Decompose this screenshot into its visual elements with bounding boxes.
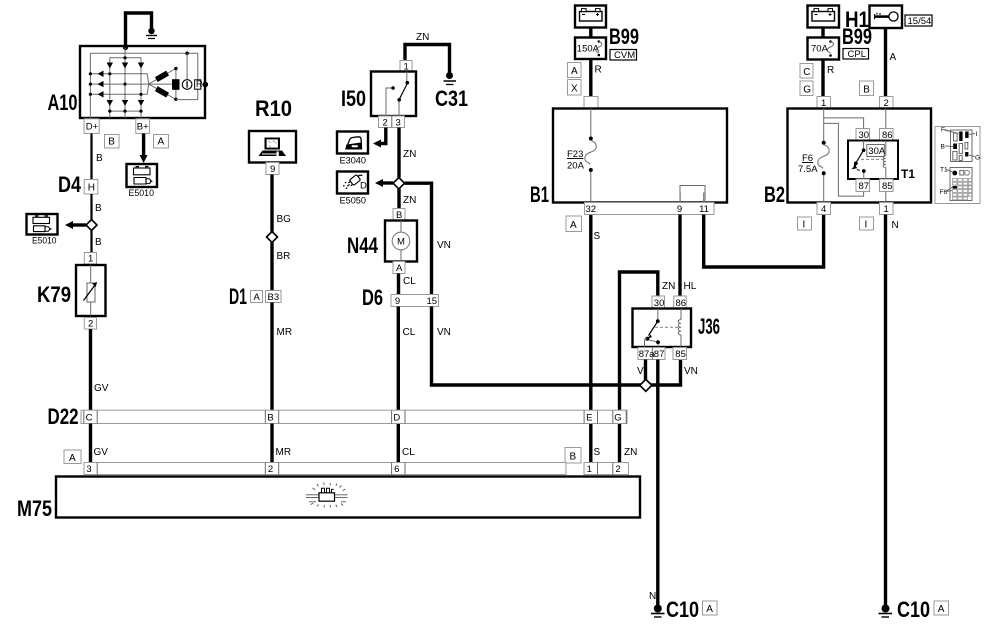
svg-text:B: B — [95, 203, 102, 214]
wire R10 down (BG) — [270, 175, 273, 232]
svg-text:I: I — [803, 219, 806, 230]
svg-text:B+: B+ — [137, 122, 149, 133]
ground (top, above A10) — [146, 28, 157, 39]
connector B label — [105, 135, 120, 149]
junction unit B2 — [788, 109, 932, 203]
svg-text:G: G — [803, 84, 811, 95]
svg-text:E5050: E5050 — [340, 196, 367, 207]
ignition key H1 — [870, 6, 903, 29]
svg-text:A: A — [254, 292, 261, 303]
connector A label — [154, 135, 169, 149]
pins 2 3 (I50) — [379, 116, 405, 129]
A10 bottom diodes — [107, 100, 145, 106]
svg-text:E5010: E5010 — [32, 236, 57, 247]
svg-text:H: H — [88, 183, 95, 194]
wire battery to fuse (right) — [821, 28, 824, 38]
label 15/54 — [905, 15, 932, 27]
node (diamond) on R10 wire — [267, 232, 278, 243]
svg-text:BG: BG — [277, 214, 292, 225]
legend connector top — [951, 130, 973, 162]
wire diamond to K79 — [90, 231, 92, 253]
svg-text:R: R — [595, 65, 602, 76]
switch I50 — [371, 72, 416, 117]
wire J36-87 to C10 (N) — [656, 360, 659, 607]
svg-text:A: A — [69, 453, 76, 464]
E5050 — [337, 172, 368, 207]
svg-text:A: A — [890, 52, 897, 63]
svg-text:VN: VN — [437, 240, 451, 251]
connector I label (below B2 pin1) — [860, 217, 874, 230]
A10 top diodes — [107, 63, 145, 69]
svg-text:A: A — [706, 604, 713, 615]
svg-text:N: N — [892, 220, 899, 231]
thermal switch K79 — [76, 265, 106, 316]
svg-text:2: 2 — [383, 118, 388, 129]
svg-text:J36: J36 — [698, 314, 720, 339]
connector G label (B2) — [800, 81, 813, 96]
svg-text:D+: D+ — [86, 122, 99, 133]
relay coil (T1) — [883, 156, 886, 168]
connector strip D22 — [81, 410, 627, 424]
wire fuse to B2 pin1 (R) — [821, 60, 824, 97]
ground C31 — [444, 72, 457, 85]
legend: fusebox layout — [935, 127, 980, 204]
svg-text:85: 85 — [675, 349, 686, 360]
connector C label (B2) — [800, 64, 813, 79]
svg-text:15: 15 — [427, 296, 438, 307]
svg-text:E: E — [586, 413, 592, 424]
wire B1-32 to D22-E (S) — [589, 215, 592, 463]
svg-text:1: 1 — [884, 204, 889, 215]
svg-text:20A: 20A — [567, 161, 585, 172]
svg-text:I: I — [976, 131, 978, 138]
svg-text:85: 85 — [882, 181, 893, 192]
svg-text:30A: 30A — [868, 146, 886, 157]
fuse 70A — [808, 38, 840, 60]
pin 87 (T1) — [856, 179, 870, 192]
svg-text:HL: HL — [684, 281, 697, 292]
svg-text:B: B — [96, 153, 103, 164]
svg-text:B2: B2 — [764, 182, 785, 207]
connector A label (C10 left) — [703, 601, 718, 615]
svg-text:R10: R10 — [255, 96, 292, 121]
svg-text:CVM: CVM — [614, 50, 635, 61]
svg-text:1: 1 — [88, 254, 93, 265]
svg-text:D22: D22 — [48, 404, 79, 429]
svg-text:15/54: 15/54 — [908, 16, 932, 27]
wire I50 pin3 down (ZN) — [397, 128, 400, 178]
label CVM — [610, 50, 637, 62]
svg-text:CL: CL — [403, 276, 416, 287]
connector D6 pins 9 15 — [391, 295, 439, 308]
svg-text:C: C — [86, 413, 93, 424]
svg-text:ZN: ZN — [416, 32, 429, 43]
fuse 150A — [575, 38, 606, 60]
svg-text:2: 2 — [615, 464, 620, 475]
wire diamond to D1 (BR) — [270, 243, 273, 291]
pin A (N44) — [393, 262, 405, 275]
pin strip M75-B (1,2) — [584, 463, 629, 475]
svg-text:87: 87 — [654, 349, 665, 360]
svg-text:9: 9 — [395, 296, 400, 307]
wire B+ to E5010 arrow — [140, 134, 148, 164]
svg-text:6: 6 — [394, 464, 399, 475]
wire I50 pin2 to E3040 arrow — [373, 128, 386, 148]
svg-text:A: A — [158, 137, 165, 148]
svg-text:C31: C31 — [435, 86, 468, 111]
svg-text:E5010: E5010 — [129, 188, 155, 199]
pin 1 (B2 bottom) — [880, 203, 894, 216]
wire D6-9 down (CL) — [397, 307, 400, 463]
label CPL — [843, 49, 869, 61]
svg-text:M: M — [397, 237, 405, 248]
svg-text:D: D — [393, 413, 400, 424]
svg-text:B99: B99 — [609, 24, 639, 49]
svg-text:G: G — [614, 413, 621, 424]
svg-text:B: B — [570, 452, 577, 463]
wire K79 to D22 (GV) — [89, 329, 92, 410]
pin B+ — [136, 119, 150, 134]
wire diamond right then down to D6-15 (VN) — [405, 183, 432, 294]
svg-text:V: V — [637, 366, 644, 377]
svg-text:G: G — [975, 155, 980, 162]
wire B1-11 to B2-4 — [704, 215, 824, 268]
svg-text:3: 3 — [86, 464, 91, 475]
svg-text:S: S — [594, 447, 601, 458]
pin 30 (J36) — [652, 296, 665, 309]
wire arrow to E5050 — [375, 179, 393, 187]
svg-text:MR: MR — [276, 447, 292, 458]
node (diamond) on VN run — [640, 379, 652, 391]
svg-text:VN: VN — [437, 327, 451, 338]
pin 85 (T1) — [880, 179, 894, 192]
svg-text:86: 86 — [882, 130, 893, 141]
pin 2 (B2 top) — [880, 97, 894, 110]
A10 left diodes — [98, 71, 104, 98]
wire D6-15 down then right to J36-85 (VN) — [432, 307, 681, 386]
pin 30 (T1) — [856, 129, 870, 142]
wire below D4 — [90, 194, 92, 220]
svg-text:A10: A10 — [48, 90, 78, 115]
svg-text:R: R — [827, 65, 834, 76]
control unit R10 — [249, 131, 296, 163]
connector A label (below B1) — [566, 216, 582, 232]
pin 1 (K79) — [84, 253, 96, 265]
pin 86 (T1) — [880, 129, 894, 142]
pin 9 (R10) — [266, 163, 279, 176]
wire key to B2 pin2 (A) — [884, 28, 887, 97]
wire diamond to N44 (ZN) — [397, 189, 400, 209]
legend connector bottom — [950, 168, 972, 201]
E5010 (below B+) — [127, 164, 158, 199]
svg-text:D1: D1 — [229, 284, 247, 309]
node (diamond) on D4-K79 wire — [86, 220, 97, 231]
wire D22-G up and right to J36-30 (ZN) — [620, 272, 658, 463]
svg-text:GV: GV — [94, 383, 109, 394]
svg-text:1: 1 — [587, 464, 592, 475]
cigar lighter M75 — [56, 477, 640, 518]
pin 1 (I50) — [400, 61, 412, 73]
M75 lamp icon — [306, 483, 348, 508]
svg-text:7.5A: 7.5A — [798, 164, 818, 175]
wire I50 pin1 to C31 (ZN) — [405, 45, 450, 73]
svg-text:X: X — [571, 84, 578, 95]
svg-text:A: A — [570, 220, 577, 231]
svg-text:ZN: ZN — [403, 195, 416, 206]
svg-text:A: A — [571, 66, 578, 77]
svg-text:2: 2 — [88, 319, 93, 330]
internal link 9-11 (B1) — [680, 186, 705, 203]
E5010 (left of K79) — [27, 214, 58, 247]
svg-text:ZN: ZN — [624, 447, 637, 458]
svg-text:MR: MR — [277, 327, 293, 338]
svg-text:F6: F6 — [802, 153, 813, 164]
pin 86 (J36) — [674, 296, 687, 309]
fuse F6 7.5A — [822, 141, 826, 145]
ground C10 (right) — [879, 605, 893, 618]
relay T1 — [848, 141, 898, 180]
wire B1-9 to J36-86 (HL) — [678, 215, 681, 297]
svg-text:E3040: E3040 — [340, 156, 367, 167]
regulator R box — [195, 80, 201, 89]
svg-text:K79: K79 — [37, 282, 71, 307]
connector A label (C10 right) — [934, 601, 949, 615]
svg-text:B99: B99 — [842, 24, 872, 49]
svg-text:F23: F23 — [567, 149, 583, 160]
svg-text:A: A — [938, 604, 945, 615]
ground C10 (left) — [651, 605, 665, 618]
wire J36-87a to node (V) — [644, 360, 647, 382]
node (diamond) on I50-N44 wire — [393, 178, 404, 189]
wire A10 ground wire — [126, 13, 152, 47]
pins 87a 87 (J36) — [638, 348, 665, 361]
connector A label (M75) — [64, 450, 81, 464]
wire D22-B to M75-2 (MR) — [270, 424, 273, 463]
svg-text:D: D — [360, 181, 367, 192]
svg-text:M75: M75 — [17, 496, 52, 521]
svg-text:A: A — [396, 263, 403, 274]
pump motor N44 — [385, 221, 417, 262]
pin 1 (B2 top) — [817, 97, 831, 110]
svg-text:F6: F6 — [940, 189, 948, 196]
svg-text:I50: I50 — [341, 86, 366, 111]
A10 internal: rails — [90, 48, 197, 119]
svg-text:GV: GV — [94, 447, 109, 458]
A10 junction dots — [89, 52, 189, 113]
svg-text:CPL: CPL — [848, 49, 866, 60]
svg-text:9: 9 — [677, 204, 682, 215]
wire fuse to B1 (R) — [589, 59, 592, 97]
svg-text:C10: C10 — [897, 597, 930, 622]
svg-text:30: 30 — [859, 130, 870, 141]
connector B label (M75) — [565, 448, 581, 464]
svg-text:I: I — [865, 219, 868, 230]
junction unit B1 — [553, 109, 727, 203]
A10 warning lamp I — [176, 53, 208, 99]
connector A label (B1) — [568, 63, 582, 78]
connector I label (below B2 pin4) — [798, 217, 812, 230]
svg-text:11: 11 — [699, 204, 709, 215]
wire B2-1 to C10 (N) — [884, 215, 887, 607]
pin D+ — [84, 119, 99, 134]
svg-text:N: N — [649, 591, 656, 602]
R10 computer icon — [259, 138, 287, 157]
pin stub (B1 top) — [584, 97, 598, 109]
contact rating 30A — [867, 145, 886, 158]
svg-text:CL: CL — [402, 447, 415, 458]
connector H (D4) — [84, 180, 98, 195]
svg-text:T1: T1 — [901, 167, 915, 181]
svg-text:B: B — [863, 84, 870, 95]
svg-text:2: 2 — [268, 464, 273, 475]
pin strip M75-A (3,2,6) — [84, 463, 566, 475]
svg-text:70A: 70A — [811, 44, 829, 55]
E3040 — [337, 132, 368, 167]
pin 4 (B2 bottom) — [817, 203, 831, 216]
wire battery to fuse — [589, 28, 592, 38]
svg-text:BR: BR — [277, 251, 291, 262]
svg-text:CL: CL — [403, 327, 416, 338]
svg-text:C10: C10 — [666, 597, 699, 622]
wire D+ down (B) — [90, 134, 92, 180]
svg-text:87a: 87a — [639, 349, 656, 360]
svg-text:B: B — [108, 137, 115, 148]
fuse F23 20A inside B1 — [590, 109, 592, 203]
connector X label (B1) — [568, 80, 582, 96]
svg-text:32: 32 — [586, 204, 597, 215]
pin B3 (D1) — [266, 291, 282, 304]
svg-text:D4: D4 — [58, 172, 82, 197]
svg-text:87: 87 — [859, 181, 870, 192]
svg-text:ZN: ZN — [662, 281, 675, 292]
pin strip B1 (32, 9, 11) — [585, 203, 715, 216]
A10 internal: rows — [90, 74, 172, 95]
wire D1 to D22 (MR) — [270, 303, 273, 411]
svg-text:ZN: ZN — [403, 149, 416, 160]
battery B99 (right) — [808, 6, 840, 28]
wire arrow to E5010 (left) — [65, 221, 86, 229]
pin 85 (J36) — [673, 348, 687, 361]
svg-text:C: C — [803, 67, 810, 78]
svg-text:N44: N44 — [347, 233, 379, 258]
svg-text:B: B — [267, 413, 273, 424]
wire D22-C to M75-3 (GV) — [89, 424, 92, 463]
wire N44 to D6 (CL) — [397, 274, 400, 295]
svg-text:D6: D6 — [362, 285, 383, 310]
svg-text:VN: VN — [684, 366, 698, 377]
pin 2 (K79) — [84, 318, 96, 330]
A10 stator windings — [149, 67, 180, 101]
connector A label (D1) — [251, 291, 263, 304]
svg-text:S: S — [594, 231, 601, 242]
battery B99 (left) — [575, 6, 606, 28]
svg-text:B1: B1 — [530, 182, 549, 207]
svg-text:F: F — [941, 127, 945, 134]
svg-text:B: B — [95, 237, 102, 248]
svg-text:B: B — [941, 144, 945, 151]
svg-text:9: 9 — [270, 164, 275, 175]
relay J36 — [633, 309, 692, 348]
svg-text:4: 4 — [821, 204, 826, 215]
connector B label (B2) — [860, 81, 874, 96]
svg-text:B3: B3 — [268, 292, 280, 303]
svg-text:3: 3 — [396, 118, 401, 129]
pin B (N44) — [393, 209, 405, 222]
